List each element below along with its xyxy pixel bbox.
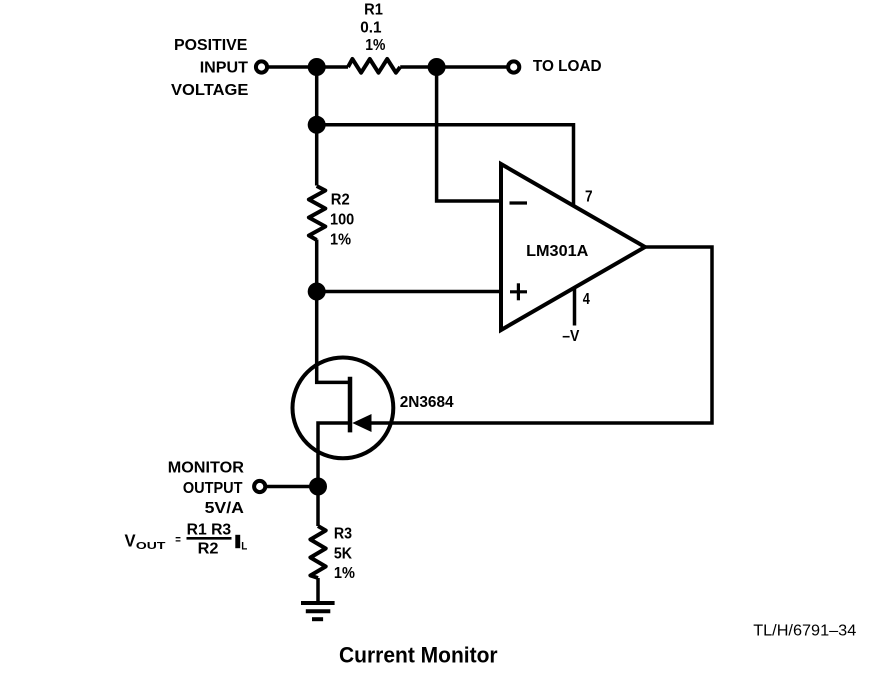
node E junction dot <box>309 478 327 496</box>
wire: R3 to ground <box>316 578 320 602</box>
wire: drain path node D to transistor <box>317 292 348 383</box>
svg-text:=: = <box>175 534 181 547</box>
svg-text:Current Monitor: Current Monitor <box>339 643 498 668</box>
wire: input terminal to node A <box>267 65 348 69</box>
svg-text:R2: R2 <box>198 540 219 558</box>
svg-text:OUTPUT: OUTPUT <box>183 479 243 497</box>
wire: monitor terminal to node E <box>266 485 319 489</box>
wire: node C to op-amp pin 7 <box>317 125 574 207</box>
svg-text:VOLTAGE: VOLTAGE <box>171 81 249 99</box>
svg-text:100: 100 <box>330 211 354 229</box>
transistor Q1 channel bar <box>348 377 353 433</box>
resistor R3 <box>310 526 325 578</box>
terminal: positive input voltage <box>256 61 267 72</box>
formula IL current symbol <box>235 535 240 548</box>
svg-text:POSITIVE: POSITIVE <box>174 37 248 54</box>
svg-text:R3: R3 <box>334 525 352 543</box>
wire: R1 to node B <box>400 65 506 69</box>
op-amp U1 LM301A triangle <box>501 164 645 330</box>
svg-text:5K: 5K <box>334 545 352 563</box>
svg-text:5V/A: 5V/A <box>205 499 244 517</box>
wire: node D to non-inverting input <box>317 290 499 294</box>
transistor Q1 gate arrow <box>352 414 371 432</box>
op-amp non-inverting input plus symbol <box>510 283 527 300</box>
svg-text:R2: R2 <box>331 191 350 209</box>
node D junction dot <box>308 283 326 301</box>
node A junction dot <box>308 58 326 76</box>
svg-text:1%: 1% <box>365 36 385 54</box>
svg-text:LM301A: LM301A <box>526 242 589 260</box>
wire: op-amp output feedback to gate <box>371 247 712 423</box>
svg-text:4: 4 <box>583 291 590 309</box>
ground <box>301 603 335 619</box>
wire: node B down to inverting input <box>437 67 499 201</box>
transistor Q1 circle <box>293 358 394 459</box>
svg-text:TO LOAD: TO LOAD <box>533 58 602 75</box>
wire: node E down to R3 <box>316 487 320 527</box>
svg-text:MONITOR: MONITOR <box>168 458 245 476</box>
node C junction dot <box>308 116 326 134</box>
svg-text:0.1: 0.1 <box>360 19 382 36</box>
node B junction dot <box>428 58 446 76</box>
svg-text:R1: R1 <box>364 1 383 19</box>
svg-text:INPUT: INPUT <box>200 59 248 77</box>
terminal: to load <box>508 61 519 72</box>
resistor R1 <box>348 59 400 73</box>
wire: vertical bus node A down to R2 <box>315 67 319 186</box>
resistor R2 <box>309 186 325 240</box>
svg-text:L: L <box>241 541 248 553</box>
svg-text:TL/H/6791–34: TL/H/6791–34 <box>753 622 856 640</box>
svg-text:1%: 1% <box>334 565 355 583</box>
svg-text:R1 R3: R1 R3 <box>187 522 232 539</box>
svg-text:7: 7 <box>585 189 593 206</box>
wire: source to monitor output node <box>318 423 348 487</box>
terminal: monitor output <box>254 481 265 492</box>
svg-text:V: V <box>125 531 137 550</box>
svg-text:–V: –V <box>562 327 579 345</box>
svg-text:2N3684: 2N3684 <box>400 394 454 411</box>
wire: R2 to node D <box>315 240 319 292</box>
svg-text:OUT: OUT <box>136 540 166 552</box>
op-amp pin 4 stub <box>573 288 577 326</box>
svg-text:1%: 1% <box>330 231 351 249</box>
formula fraction bar <box>187 537 232 540</box>
op-amp inverting input minus symbol <box>510 201 528 204</box>
